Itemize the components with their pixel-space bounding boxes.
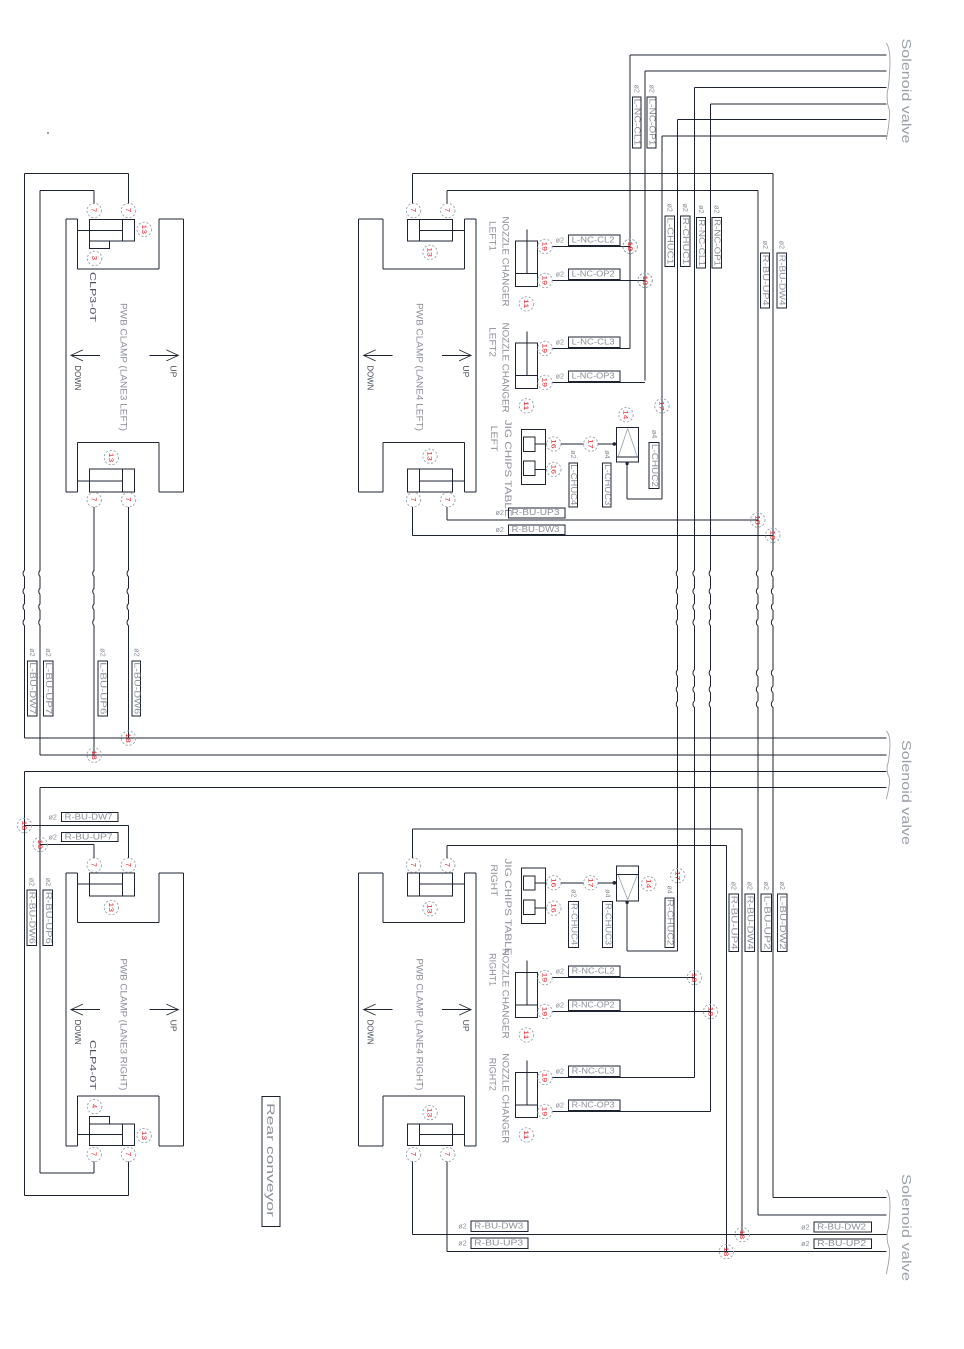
svg-text:UP: UP [461,365,470,377]
svg-text:18: 18 [36,840,43,850]
svg-text:13: 13 [140,225,147,235]
svg-text:ø2: ø2 [496,525,504,534]
svg-text:ø2: ø2 [778,241,787,249]
svg-text:R-BU-UP2: R-BU-UP2 [817,1239,866,1248]
svg-text:7: 7 [443,208,452,212]
svg-text:ø2: ø2 [458,1222,466,1231]
svg-text:18: 18 [690,973,697,983]
svg-text:ø2: ø2 [761,241,770,249]
svg-text:R-BU-DW3: R-BU-DW3 [474,1222,523,1231]
svg-text:7: 7 [124,1152,133,1156]
svg-text:7: 7 [124,208,133,212]
svg-text:ø4: ø4 [603,450,612,458]
svg-text:17: 17 [587,439,594,449]
svg-text:13: 13 [140,1131,147,1141]
svg-text:18: 18 [124,733,131,743]
svg-text:DOWN: DOWN [366,365,375,390]
svg-text:7: 7 [90,497,99,501]
svg-text:18: 18 [20,821,27,831]
svg-text:UP: UP [169,365,178,377]
svg-text:19: 19 [541,1007,548,1017]
svg-text:13: 13 [426,247,433,257]
svg-text:R-BU-UP4: R-BU-UP4 [730,896,739,951]
svg-text:DOWN: DOWN [366,1020,375,1045]
svg-text:ø2: ø2 [697,205,706,213]
svg-text:ø2: ø2 [801,1222,809,1231]
svg-text:7: 7 [409,208,418,212]
svg-text:18: 18 [626,242,633,252]
svg-text:R-BU-DW7: R-BU-DW7 [65,812,113,821]
svg-text:L-NC-OP2: L-NC-OP2 [572,270,615,279]
svg-text:L-BU-UP6: L-BU-UP6 [99,662,108,714]
svg-text:18: 18 [769,530,776,540]
svg-text:ø2: ø2 [556,372,564,381]
svg-text:17: 17 [658,401,665,411]
svg-text:ø2: ø2 [713,205,722,213]
svg-text:19: 19 [541,378,548,388]
svg-text:RIGHT1: RIGHT1 [487,953,497,986]
svg-text:13: 13 [426,904,433,914]
svg-text:7: 7 [409,863,418,867]
svg-text:JIG CHIPS TABLE: JIG CHIPS TABLE [503,859,513,956]
svg-text:ø2: ø2 [49,832,57,841]
svg-text:L-BU-UP2: L-BU-UP2 [762,896,771,950]
svg-text:13: 13 [426,451,433,461]
svg-text:L-NC-CL2: L-NC-CL2 [572,236,615,245]
svg-text:R-NC-OP1: R-NC-OP1 [713,219,722,266]
svg-text:7: 7 [409,1152,418,1156]
svg-text:PWB CLAMP (LANE3 RIGHT): PWB CLAMP (LANE3 RIGHT) [118,958,128,1090]
svg-text:LEFT1: LEFT1 [487,221,497,251]
svg-text:ø2: ø2 [556,1067,564,1076]
svg-text:ø2: ø2 [28,648,37,656]
svg-text:ø2: ø2 [778,882,787,890]
svg-text:ø4: ø4 [650,430,659,438]
svg-text:L-BU-DW7: L-BU-DW7 [28,662,37,714]
svg-text:18: 18 [738,1230,745,1240]
svg-text:R-BU-UP6: R-BU-UP6 [44,892,53,944]
svg-text:NOZZLE CHANGER: NOZZLE CHANGER [500,217,510,307]
svg-text:RIGHT: RIGHT [489,864,499,896]
svg-text:19: 19 [541,1073,548,1083]
svg-text:R-BU-DW6: R-BU-DW6 [28,892,37,944]
svg-text:LEFT2: LEFT2 [487,327,497,357]
svg-text:13: 13 [426,1108,433,1118]
svg-text:18: 18 [641,276,648,286]
svg-text:RIGHT2: RIGHT2 [487,1058,497,1091]
svg-text:R-CHUC4: R-CHUC4 [569,903,578,946]
svg-text:13: 13 [107,903,114,913]
svg-text:ø2: ø2 [556,338,564,347]
svg-text:ø2: ø2 [496,508,504,517]
svg-text:17: 17 [673,871,680,881]
svg-text:16: 16 [550,903,557,913]
svg-text:ø2: ø2 [28,878,37,886]
svg-text:L-CHUC2: L-CHUC2 [650,444,659,487]
svg-text:NOZZLE CHANGER: NOZZLE CHANGER [500,949,510,1039]
svg-text:PWB CLAMP (LANE4 LEFT): PWB CLAMP (LANE4 LEFT) [414,303,424,431]
svg-text:Rear conveyor: Rear conveyor [264,1103,276,1218]
svg-text:14: 14 [644,879,651,889]
svg-text:R-BU-DW2: R-BU-DW2 [817,1222,866,1231]
svg-text:ø2: ø2 [44,648,53,656]
svg-text:ø2: ø2 [746,882,755,890]
svg-text:JIG CHIPS TABLE: JIG CHIPS TABLE [503,420,513,517]
svg-text:7: 7 [409,497,418,501]
svg-text:NOZZLE CHANGER: NOZZLE CHANGER [500,323,510,413]
svg-text:ø4: ø4 [666,885,675,893]
svg-text:DOWN: DOWN [73,365,82,390]
svg-text:19: 19 [541,973,548,983]
svg-text:7: 7 [443,497,452,501]
svg-text:L-CHUC1: L-CHUC1 [666,218,675,265]
svg-text:R-BU-UP3: R-BU-UP3 [474,1239,523,1248]
svg-text:UP: UP [461,1020,470,1032]
svg-text:ø2: ø2 [666,204,675,212]
svg-text:R-NC-OP2: R-NC-OP2 [572,1001,615,1010]
svg-text:14: 14 [622,410,629,420]
svg-text:ø2: ø2 [556,236,564,245]
svg-text:R-CHUC3: R-CHUC3 [603,903,612,945]
svg-text:19: 19 [541,276,548,286]
svg-text:19: 19 [541,344,548,354]
svg-text:L-CHUC4: L-CHUC4 [569,464,578,506]
svg-text:ø2: ø2 [801,1239,809,1248]
svg-text:18: 18 [706,1007,713,1017]
svg-text:7: 7 [124,497,133,501]
svg-text:ø2: ø2 [569,889,578,897]
svg-text:L-NC-OP3: L-NC-OP3 [572,372,615,381]
svg-text:R-CHUC2: R-CHUC2 [666,899,675,945]
svg-text:ø2: ø2 [762,882,771,890]
svg-text:ø2: ø2 [556,967,564,976]
svg-text:ø2: ø2 [569,450,578,458]
svg-text:ø2: ø2 [132,648,141,656]
svg-text:16: 16 [550,439,557,449]
svg-text:11: 11 [522,1030,529,1040]
svg-text:18: 18 [90,750,97,760]
svg-text:7: 7 [90,1152,99,1156]
svg-text:11: 11 [522,299,529,309]
svg-text:R-NC-CL1: R-NC-CL1 [697,219,706,266]
svg-text:19: 19 [541,1107,548,1117]
svg-text:ø2: ø2 [44,878,53,886]
svg-text:4: 4 [90,1104,99,1108]
svg-text:16: 16 [550,878,557,888]
svg-text:ø2: ø2 [556,1001,564,1010]
svg-text:R-NC-CL3: R-NC-CL3 [572,1067,615,1076]
svg-text:CLP4-0T: CLP4-0T [88,1040,97,1090]
svg-text:PWB CLAMP (LANE4 RIGHT): PWB CLAMP (LANE4 RIGHT) [414,958,424,1090]
svg-text:Solenoid valve: Solenoid valve [899,39,914,144]
svg-text:L-BU-UP7: L-BU-UP7 [44,662,53,714]
svg-text:L-NC-OP1: L-NC-OP1 [648,99,657,146]
svg-text:ø2: ø2 [730,882,739,890]
svg-text:DOWN: DOWN [73,1020,82,1045]
svg-text:7: 7 [124,863,133,867]
svg-text:CLP3-0T: CLP3-0T [88,272,97,322]
svg-text:L-NC-CL1: L-NC-CL1 [633,99,642,146]
svg-text:UP: UP [169,1020,178,1032]
svg-text:ø4: ø4 [603,889,612,897]
svg-text:7: 7 [90,208,99,212]
svg-text:R-BU-UP3: R-BU-UP3 [512,508,560,517]
svg-text:ø2: ø2 [633,85,642,93]
svg-text:LEFT: LEFT [489,426,499,452]
svg-text:R-NC-CL2: R-NC-CL2 [572,967,615,976]
svg-text:ø2: ø2 [458,1239,466,1248]
svg-text:19: 19 [541,242,548,252]
svg-text:L-BU-DW2: L-BU-DW2 [778,896,787,950]
svg-text:16: 16 [550,465,557,475]
svg-text:ø2: ø2 [556,1101,564,1110]
svg-text:PWB CLAMP (LANE3 LEFT): PWB CLAMP (LANE3 LEFT) [118,303,128,431]
svg-text:R-NC-OP3: R-NC-OP3 [572,1101,615,1110]
svg-text:11: 11 [522,401,529,411]
svg-text:13: 13 [107,453,114,463]
svg-text:3: 3 [90,256,99,260]
svg-text:7: 7 [443,1152,452,1156]
svg-text:Solenoid valve: Solenoid valve [899,740,914,845]
svg-text:7: 7 [90,863,99,867]
svg-text:R-BU-UP4: R-BU-UP4 [761,255,770,307]
svg-text:18: 18 [754,515,761,525]
svg-text:R-BU-DW4: R-BU-DW4 [778,255,787,307]
svg-text:7: 7 [443,863,452,867]
svg-text:11: 11 [522,1130,529,1140]
svg-text:ø2: ø2 [49,812,57,821]
svg-text:ø2: ø2 [648,85,657,93]
svg-text:R-BU-DW4: R-BU-DW4 [746,896,755,951]
svg-text:ø2: ø2 [99,648,108,656]
svg-text:17: 17 [587,878,594,888]
svg-text:ø2: ø2 [681,204,690,212]
svg-text:Solenoid valve: Solenoid valve [899,1174,914,1281]
svg-text:R-BU-UP7: R-BU-UP7 [65,832,113,841]
svg-text:L-NC-CL3: L-NC-CL3 [572,338,615,347]
svg-text:R-BU-DW3: R-BU-DW3 [512,525,560,534]
svg-text:18: 18 [722,1247,729,1257]
svg-text:L-CHUC3: L-CHUC3 [603,464,612,505]
svg-text:NOZZLE CHANGER: NOZZLE CHANGER [500,1053,510,1143]
svg-text:R-CHUC1: R-CHUC1 [681,218,690,265]
svg-text:ø2: ø2 [556,270,564,279]
svg-text:L-BU-DW6: L-BU-DW6 [132,662,141,714]
